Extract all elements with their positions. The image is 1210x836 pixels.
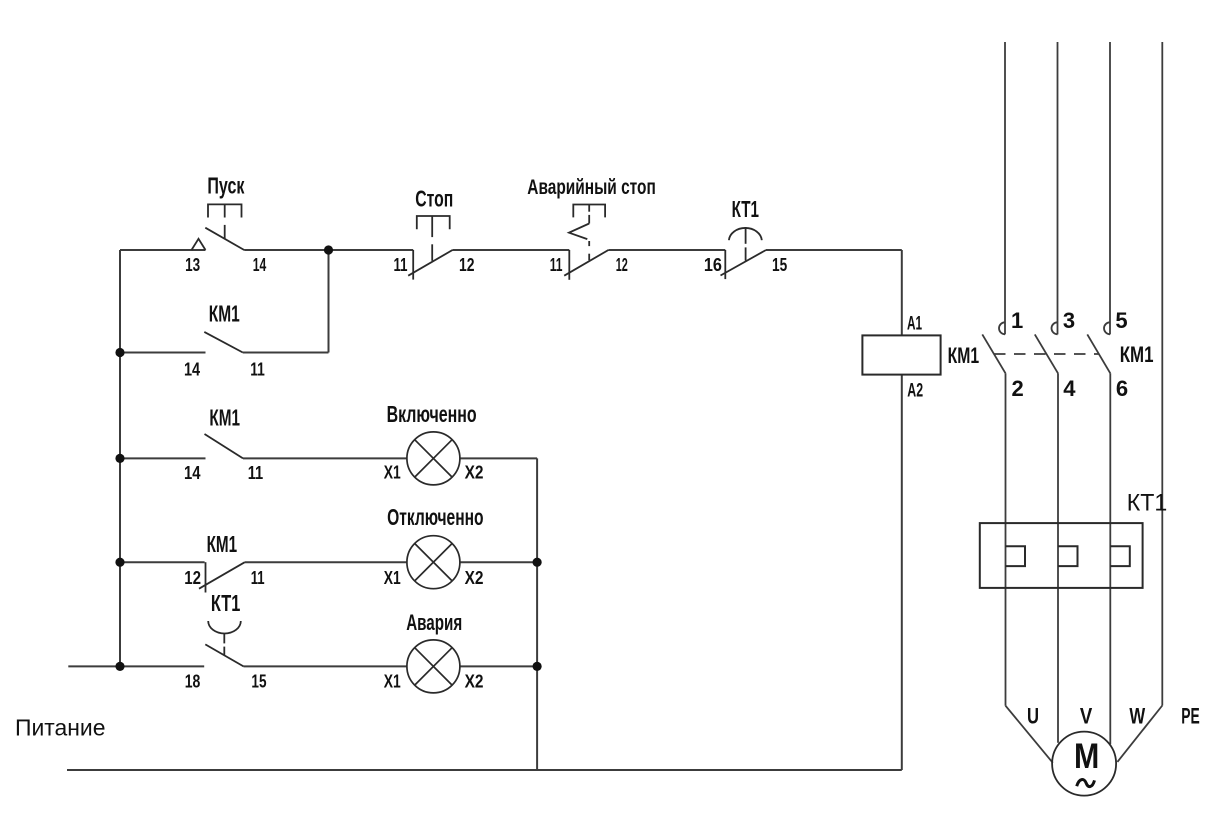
svg-text:КМ1: КМ1	[209, 300, 240, 326]
svg-text:X2: X2	[465, 671, 484, 691]
svg-text:13: 13	[185, 255, 200, 275]
svg-text:1: 1	[1011, 308, 1023, 333]
svg-text:Отключенно: Отключенно	[387, 504, 484, 530]
svg-text:X1: X1	[384, 568, 401, 588]
svg-text:16: 16	[704, 255, 722, 275]
svg-text:5: 5	[1115, 308, 1127, 333]
svg-text:X1: X1	[384, 463, 401, 483]
svg-text:X2: X2	[465, 568, 484, 588]
svg-text:X1: X1	[384, 671, 401, 691]
svg-text:11: 11	[251, 568, 265, 588]
svg-text:Аварийный стоп: Аварийный стоп	[527, 176, 656, 199]
svg-text:V: V	[1080, 703, 1092, 728]
svg-text:12: 12	[616, 255, 628, 275]
svg-text:M: M	[1074, 736, 1099, 776]
svg-text:14: 14	[184, 360, 200, 380]
svg-text:3: 3	[1063, 308, 1075, 333]
svg-text:4: 4	[1063, 376, 1076, 401]
svg-text:X2: X2	[465, 463, 484, 483]
svg-text:6: 6	[1116, 376, 1128, 401]
svg-text:Стоп: Стоп	[415, 185, 453, 211]
svg-text:12: 12	[459, 255, 475, 275]
svg-text:12: 12	[184, 568, 201, 588]
svg-text:14: 14	[184, 463, 201, 483]
svg-text:11: 11	[250, 360, 265, 380]
svg-text:11: 11	[394, 255, 408, 275]
svg-text:15: 15	[251, 671, 266, 691]
svg-text:КМ1: КМ1	[948, 343, 980, 368]
svg-text:2: 2	[1012, 376, 1024, 401]
svg-text:КТ1: КТ1	[211, 590, 241, 616]
svg-text:PE: PE	[1181, 703, 1200, 728]
svg-text:15: 15	[772, 255, 787, 275]
svg-text:КТ1: КТ1	[732, 196, 760, 222]
svg-text:Авария: Авария	[406, 610, 462, 635]
svg-text:14: 14	[253, 255, 266, 275]
svg-text:КМ1: КМ1	[209, 404, 240, 430]
svg-text:КМ1: КМ1	[1120, 342, 1154, 367]
svg-text:18: 18	[185, 671, 201, 691]
svg-text:A1: A1	[907, 313, 922, 334]
svg-text:U: U	[1027, 703, 1039, 728]
svg-text:A2: A2	[907, 381, 923, 402]
svg-text:11: 11	[550, 255, 563, 275]
svg-text:КМ1: КМ1	[207, 531, 238, 557]
svg-text:W: W	[1129, 703, 1145, 728]
svg-text:Пуск: Пуск	[207, 173, 244, 199]
svg-text:Включенно: Включенно	[387, 401, 477, 427]
svg-text:11: 11	[248, 463, 264, 483]
svg-text:Питание: Питание	[15, 715, 106, 741]
svg-text:КТ1: КТ1	[1127, 490, 1168, 517]
